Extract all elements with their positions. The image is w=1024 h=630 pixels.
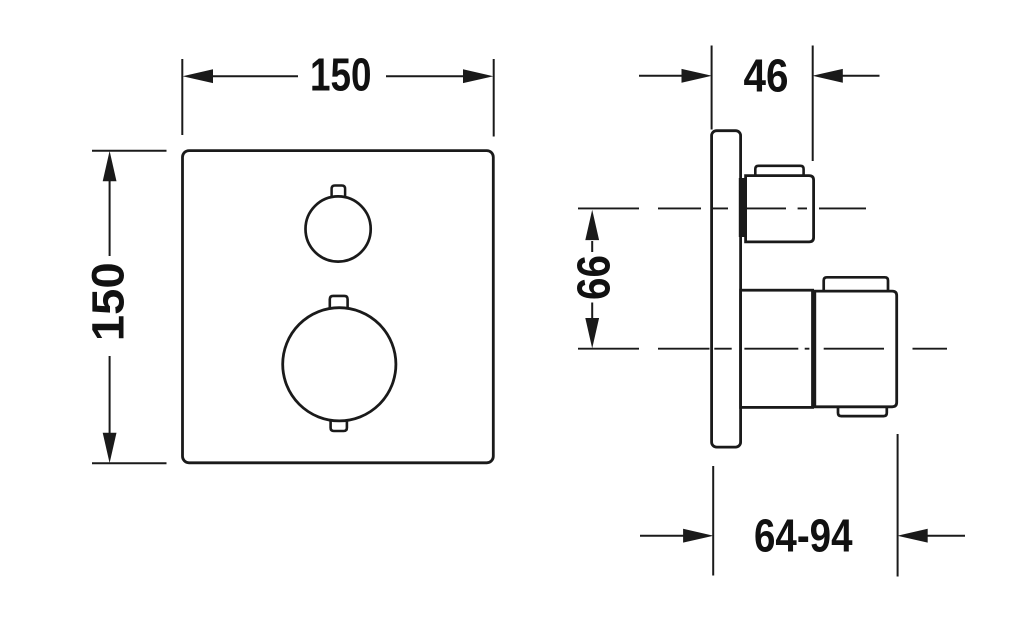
dim 64-94: left arrowhead pointing right (683, 529, 713, 543)
side view: bottom handle axis centerline (578, 348, 947, 350)
front view: large handle top tab (330, 296, 348, 309)
dim 150 left: top extension line (92, 150, 167, 152)
svg-text:150: 150 (83, 262, 134, 341)
dim 150 left: bottom extension line (92, 462, 167, 464)
dim 150 left: dimension line segments (109, 181, 111, 433)
side view: wall plate cross-section (712, 131, 741, 447)
side view: top handle body (746, 176, 814, 242)
dim 66: dimension line segments (591, 241, 593, 319)
dim 150 top: right arrowhead (463, 69, 493, 83)
side view: top handle cap (tab) (755, 166, 803, 176)
front view: small thermostat handle circle (306, 196, 371, 261)
dim 150 top: dimension line segments (210, 75, 466, 77)
svg-text:46: 46 (744, 50, 789, 102)
dim 46: right arrowhead pointing left (812, 69, 842, 83)
dim 46: dimension line tails (639, 75, 880, 77)
side view: top handle axis centerline (578, 207, 866, 209)
front view: large handle bottom tab (331, 420, 347, 432)
dim 150 left: down arrowhead (103, 433, 117, 463)
dim 150 top: right extension line (493, 59, 495, 137)
dim 46: left extension line (711, 46, 713, 130)
side view: bottom handle base block (741, 290, 813, 407)
dim 46: right extension line (812, 46, 814, 162)
dim 66: up arrowhead (585, 210, 599, 240)
svg-text:64-94: 64-94 (754, 510, 853, 562)
svg-text:66: 66 (567, 255, 619, 300)
front view: large volume handle circle (283, 308, 396, 421)
dim 150 top: left arrowhead (183, 69, 213, 83)
dim 66: down arrowhead (585, 318, 599, 348)
dim 64-94: right extension line (897, 434, 899, 577)
front view: small handle top tab (332, 186, 345, 199)
dim 64-94: left extension line (712, 466, 714, 576)
dim 150 top: left extension line (181, 59, 183, 135)
front view: trim plate outline (183, 151, 494, 463)
side view: divider thick line between base and body (811, 291, 816, 407)
dim 150 left: up arrowhead (103, 151, 117, 181)
svg-text:150: 150 (310, 48, 372, 100)
dim 64-94: right arrowhead pointing left (897, 529, 927, 543)
dim 46: left arrowhead pointing right (682, 69, 712, 83)
side view: bottom handle bottom cap (tab) (838, 407, 887, 416)
side view: bottom handle body (815, 291, 897, 407)
side view: bottom handle top cap (tab) (824, 277, 888, 291)
side view: top handle neck (solid) (739, 178, 747, 237)
dim 64-94: dimension line tails (640, 535, 965, 537)
